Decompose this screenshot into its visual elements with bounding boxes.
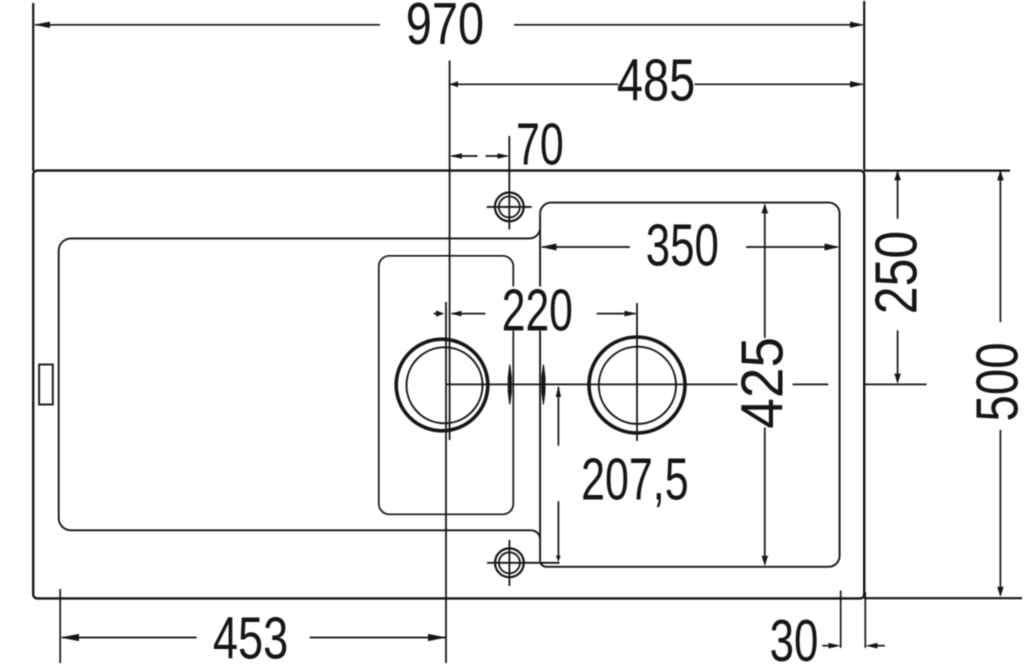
dimension 30 extension lines — [840, 591, 842, 648]
arrow 70 left — [450, 153, 462, 159]
dimension 70 line — [452, 155, 478, 157]
svg-text:500: 500 — [966, 342, 1024, 421]
arrow 207,5 bottom (points down) — [556, 556, 561, 562]
sink outer rim — [33, 171, 864, 599]
bottom edge extension line (right, for 500 ref) — [864, 597, 1022, 599]
arrow 970 left — [34, 22, 50, 28]
dimension 485 line — [450, 83, 618, 85]
arrow 485 right — [850, 81, 864, 87]
arrow 220 right (points right) — [625, 311, 638, 317]
left drain long vertical center line — [445, 302, 447, 663]
left extension line above rim (970 ref) — [32, 3, 34, 171]
arrow 453 right — [428, 634, 447, 641]
arrow 425 top — [762, 203, 769, 213]
arrow 220 inner (points left) — [450, 311, 461, 317]
right drain inner circle — [599, 347, 676, 424]
right drain outer circle — [589, 337, 685, 433]
svg-text:220: 220 — [502, 277, 573, 343]
inner basket rounded rect (around left drain, gap in right edge for 220 text) — [379, 256, 514, 515]
svg-text:453: 453 — [213, 606, 288, 667]
overflow slot rectangle on left wall — [39, 365, 53, 405]
svg-text:30: 30 — [770, 609, 819, 667]
main horizontal center line (gaps for 425 text) — [446, 383, 828, 385]
arrow 70 right — [498, 153, 510, 159]
right extension line above rim (970/485 ref) — [863, 1, 865, 170]
dimension 220 line pieces — [434, 313, 442, 315]
upper extension of drain center line (485/70 ref) — [449, 61, 451, 441]
arrow 350 right — [825, 244, 840, 251]
dimension 500 line — [999, 171, 1001, 322]
arrow 250 top — [894, 170, 901, 180]
dimension 30 lines — [822, 645, 834, 647]
svg-text:425: 425 — [730, 337, 796, 429]
svg-text:350: 350 — [646, 213, 719, 279]
bowl left edge / divider (with gap for 220 text) — [539, 214, 541, 561]
arrow 500 bottom — [997, 587, 1004, 597]
center line extension outside rim (250 ref) — [864, 383, 926, 385]
dimension 250 line — [897, 171, 899, 219]
dimension 207,5 line — [557, 387, 559, 446]
svg-text:970: 970 — [406, 0, 484, 57]
drainboard top-right merge arc — [530, 228, 541, 239]
dimension 350 line — [542, 246, 630, 248]
arrow 220 outer-left (points right) — [436, 310, 444, 316]
arrow 453 left — [60, 634, 79, 641]
top edge extension line (right, for 500/250 refs) — [864, 170, 1010, 172]
left drain outer circle — [396, 339, 488, 431]
left drain inner circle — [407, 347, 483, 423]
arrow 207,5 top (points up) — [556, 386, 561, 397]
arrow 30 right (points left) — [865, 643, 877, 649]
top tap hole symbol — [487, 136, 532, 230]
main bowl outline — [540, 203, 840, 567]
dimension 453 line — [62, 637, 197, 639]
svg-text:70: 70 — [516, 111, 564, 177]
right drain vertical center line — [636, 303, 638, 441]
svg-text:250: 250 — [862, 231, 929, 314]
dimension 425 line — [764, 205, 766, 338]
arrow 485 left (small) — [450, 81, 458, 87]
dimension 970 line — [35, 24, 380, 26]
arrow 425 bottom — [762, 556, 769, 566]
arrow 970 right — [850, 22, 864, 28]
drainboard bottom-right merge arc — [531, 530, 540, 539]
svg-text:207,5: 207,5 — [581, 446, 688, 512]
arrow 350 left — [541, 244, 557, 251]
drainboard outline — [59, 238, 532, 530]
tick mark on center line at basket edge — [508, 365, 512, 405]
svg-text:485: 485 — [617, 48, 695, 113]
bottom tap hole symbol — [487, 540, 560, 586]
dimension 453 extension line — [59, 589, 61, 663]
arrow 250 bottom — [894, 374, 901, 384]
arrow 500 top — [997, 170, 1004, 180]
arrow 30 left (points right) — [829, 643, 841, 649]
tick mark on center line at divider — [541, 365, 545, 405]
